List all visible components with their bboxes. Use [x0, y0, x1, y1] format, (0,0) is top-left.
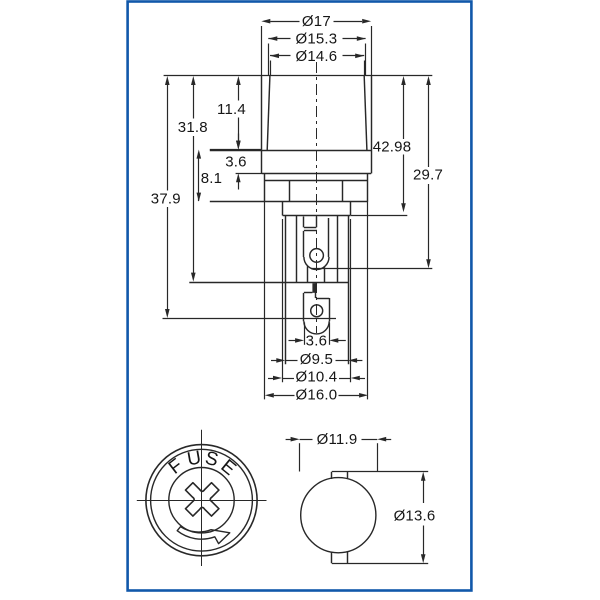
upper terminal hole [310, 249, 324, 263]
svg-text:Ø11.9: Ø11.9 [317, 431, 358, 448]
fuse cap second circle [151, 449, 253, 551]
dimension 29.7 [428, 80, 430, 167]
border frame [128, 2, 472, 591]
svg-text:Ø14.6: Ø14.6 [295, 48, 337, 65]
svg-text:F: F [165, 455, 187, 479]
svg-text:Ø10.4: Ø10.4 [295, 369, 337, 386]
upper terminal body [303, 231, 305, 257]
rotation arrow [177, 527, 230, 544]
svg-text:11.4: 11.4 [217, 101, 246, 118]
svg-text:Ø13.6: Ø13.6 [394, 507, 436, 524]
dimension Ø10.4 [268, 378, 273, 380]
dimension Ø13.6 [332, 471, 428, 473]
dimension Ø14.6 [270, 55, 291, 57]
extension line 37.9 [163, 318, 337, 320]
fuse cap outer circle [146, 445, 257, 556]
extension line flange bottom [236, 173, 262, 175]
fuse cap inner circle [169, 468, 234, 533]
extension line 29.7 [311, 268, 432, 270]
dimension Ø9.5 [271, 360, 277, 362]
dimension 3.6 terminal [289, 340, 296, 342]
fuse cap front view crosshair [137, 500, 267, 502]
upper terminal notch [303, 217, 305, 228]
lower terminal bottom arc [304, 321, 329, 334]
tube outer walls + Ø9.5 extension [285, 216, 287, 365]
mounting hole circle [301, 478, 376, 553]
extension line collar bottom right [351, 215, 407, 217]
collar [282, 202, 284, 216]
dimension 42.98 [403, 80, 405, 139]
extension line flange top [210, 149, 262, 151]
svg-text:Ø16.0: Ø16.0 [295, 387, 337, 404]
hex nut facet lines [289, 181, 291, 202]
hex nut [264, 173, 266, 201]
cap inner slant left [267, 76, 270, 150]
bottom tab [331, 552, 333, 564]
dimension 31.8 [193, 80, 195, 119]
dimension 37.9 [167, 80, 169, 191]
centerline main view [316, 62, 318, 333]
dimension 3.6 flange [238, 134, 240, 146]
svg-text:E: E [217, 456, 240, 480]
Ø10.4 extension lines [282, 219, 284, 382]
dimension Ø16.0 [274, 395, 295, 397]
svg-text:3.6: 3.6 [306, 332, 327, 349]
dimension Ø15.3 [268, 38, 290, 40]
svg-text:Ø9.5: Ø9.5 [300, 351, 333, 368]
svg-text:S: S [203, 448, 220, 471]
dimension Ø17 [270, 21, 299, 23]
svg-text:Ø15.3: Ø15.3 [295, 31, 337, 48]
svg-text:3.6: 3.6 [225, 153, 246, 170]
svg-text:8.1: 8.1 [201, 170, 222, 187]
svg-text:Ø17: Ø17 [302, 13, 331, 30]
dimension 11.4 [238, 80, 240, 101]
svg-text:31.8: 31.8 [178, 119, 208, 136]
Ø16 extension lines [264, 202, 266, 400]
svg-text:37.9: 37.9 [151, 191, 181, 208]
upper terminal tabs to tube bottom [307, 266, 309, 282]
svg-text:29.7: 29.7 [413, 167, 443, 184]
cap inner slant right [364, 76, 367, 150]
dimension Ø11.9 [300, 439, 313, 441]
lower terminal right step [315, 283, 317, 298]
top extension line [164, 75, 433, 77]
tube inner walls [296, 216, 298, 283]
svg-text:42.98: 42.98 [373, 138, 412, 155]
svg-text:U: U [186, 447, 203, 470]
dimension 8.1 [198, 153, 200, 202]
tube bottom + 31.8 extension [189, 282, 348, 284]
lower terminal slot [312, 283, 316, 293]
lower terminal left step [304, 292, 313, 294]
screwdriver X slot [186, 483, 219, 516]
top tab [331, 472, 333, 479]
lower terminal hole [311, 305, 323, 317]
cap outer sides [261, 76, 263, 150]
flange [210, 150, 371, 152]
